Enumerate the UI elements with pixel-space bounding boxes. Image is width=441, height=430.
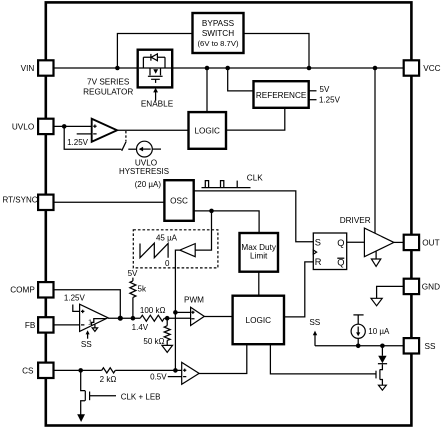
svg-text:100 kΩ: 100 kΩ xyxy=(140,306,166,315)
node CS junction xyxy=(78,368,83,373)
wire OSC ramp output to max duty xyxy=(194,211,259,233)
ground GND symbol xyxy=(371,298,382,306)
svg-text:Q: Q xyxy=(337,238,344,248)
svg-text:(6V to 8.7V): (6V to 8.7V) xyxy=(197,39,238,48)
regulator U1 7V series regulator box xyxy=(138,50,173,88)
wire ramp junction to buffer xyxy=(195,211,211,250)
logic U5 box xyxy=(189,112,227,149)
svg-text:5k: 5k xyxy=(138,285,147,294)
current source I2 10uA charge source xyxy=(353,314,363,316)
svg-text:SS: SS xyxy=(425,342,436,351)
wire VIN to bypass switch xyxy=(117,34,192,69)
node SS arrow into error amp xyxy=(87,334,89,339)
wire VCC rail to driver xyxy=(374,68,376,234)
svg-text:50 kΩ: 50 kΩ xyxy=(143,337,164,346)
node slope comp to PWM junction xyxy=(173,310,178,315)
svg-text:VCC: VCC xyxy=(423,64,440,73)
transistor Q1 pass FET in regulator xyxy=(150,68,161,75)
svg-text:RT/SYNC: RT/SYNC xyxy=(3,196,38,205)
svg-text:2 kΩ: 2 kΩ xyxy=(100,375,117,384)
wire RT/SYNC to OSC xyxy=(54,201,165,203)
svg-text:CLK: CLK xyxy=(247,173,263,182)
wire logic2 to SS discharge FET gate xyxy=(270,344,376,374)
svg-text:SS: SS xyxy=(309,318,320,327)
transistor Q3 SS discharge FET xyxy=(379,369,381,379)
pin OUT xyxy=(404,235,419,250)
node COMP junction xyxy=(118,316,123,321)
svg-text:LOGIC: LOGIC xyxy=(194,126,220,135)
svg-text:7V SERIES: 7V SERIES xyxy=(87,77,130,86)
svg-text:BYPASS: BYPASS xyxy=(202,19,235,28)
svg-text:0.5V: 0.5V xyxy=(150,372,167,381)
wire UVLO comparator output to logic xyxy=(117,129,188,131)
svg-text:45 µA: 45 µA xyxy=(156,233,178,242)
node logic supply junction xyxy=(205,66,210,71)
svg-text:0: 0 xyxy=(165,259,170,268)
wire FB to error amp xyxy=(54,324,80,326)
wire buffer output down to PWM and CS xyxy=(175,250,179,370)
pin COMP xyxy=(38,282,53,297)
wire bypass switch to VCC rail xyxy=(244,34,310,69)
svg-text:5V: 5V xyxy=(128,269,138,278)
svg-text:10 µA: 10 µA xyxy=(368,327,390,336)
svg-text:1.25V: 1.25V xyxy=(64,293,86,302)
transistor Q2 CLK+LEB blanking FET xyxy=(81,370,85,415)
node ramp junction xyxy=(209,209,214,214)
svg-text:OUT: OUT xyxy=(422,239,439,248)
wire VCC rail to logic top xyxy=(206,68,208,112)
wire VIN rail to VCC xyxy=(54,67,404,69)
resistor R1 5k xyxy=(130,281,136,298)
node VIN junction xyxy=(115,66,120,71)
svg-text:5V: 5V xyxy=(320,85,330,94)
wire UVLO to comparator xyxy=(54,125,92,127)
latch U9 SR flip-flop xyxy=(313,233,346,270)
svg-text:GND: GND xyxy=(422,283,440,292)
wire max duty to logic2 xyxy=(258,272,260,296)
svg-text:R: R xyxy=(315,257,322,267)
node reference supply junction xyxy=(225,66,230,71)
wire PWM output to logic2 xyxy=(204,316,232,318)
diode D1 in regulator xyxy=(143,56,165,58)
switch U2 bypass box xyxy=(193,13,244,53)
wire UVLO hysteresis branch xyxy=(64,126,121,149)
wire VCC rail to reference xyxy=(228,68,254,91)
wire logic2 to latch R xyxy=(284,262,313,317)
svg-text:Limit: Limit xyxy=(250,251,268,260)
node SS signal arrow xyxy=(314,335,316,346)
pin RT/SYNC xyxy=(38,195,53,210)
svg-text:CS: CS xyxy=(22,366,34,375)
pin VIN xyxy=(38,60,53,75)
logic U13 bottom logic box xyxy=(233,296,284,345)
svg-text:FB: FB xyxy=(25,321,36,330)
svg-text:ENABLE: ENABLE xyxy=(141,100,174,109)
pin VCC xyxy=(404,60,419,75)
pin CS xyxy=(38,363,53,378)
current source I1 UVLO hysteresis xyxy=(137,141,153,157)
svg-text:DRIVER: DRIVER xyxy=(340,216,371,225)
wire logic to reference bottom xyxy=(226,108,285,130)
wire dashed control line xyxy=(125,131,127,141)
pin SS xyxy=(404,338,419,353)
pin UVLO xyxy=(38,119,53,134)
wire OSC clock output to latch S xyxy=(194,191,314,242)
svg-text:1.25V: 1.25V xyxy=(67,138,89,147)
node UVLO junction xyxy=(62,124,67,129)
wire switch to current source xyxy=(128,148,136,150)
wire diode legs xyxy=(143,57,165,68)
buffer U7 ramp buffer xyxy=(180,244,195,257)
node slope comp CS junction xyxy=(173,368,178,373)
svg-text:HYSTERESIS: HYSTERESIS xyxy=(119,167,169,176)
wire driver output to OUT xyxy=(394,241,404,243)
wire reference 1.25V stub xyxy=(309,99,317,101)
ground 50k ground xyxy=(166,340,168,345)
latch clock edge marker xyxy=(313,250,316,254)
svg-text:Q: Q xyxy=(337,257,344,267)
wire 1.25V stub to UVLO comparator xyxy=(77,133,92,135)
svg-text:VIN: VIN xyxy=(21,64,35,73)
diode D2 SS discharge diode xyxy=(381,346,383,356)
node driver supply junction xyxy=(373,66,378,71)
switch S1 hysteresis switch blade xyxy=(122,141,127,150)
wire error amp output rail xyxy=(108,317,191,319)
wire logic2 to CS comparator output xyxy=(199,344,247,373)
ground CS FET ground arrow xyxy=(77,414,85,422)
reference U3 box xyxy=(254,81,309,108)
wire COMP to error amp output xyxy=(54,290,121,318)
node SS current source junction xyxy=(356,344,361,349)
svg-text:1.4V: 1.4V xyxy=(132,323,149,332)
resistor R4 2 kOhm xyxy=(102,368,116,373)
svg-text:SWITCH: SWITCH xyxy=(202,29,234,38)
svg-text:LOGIC: LOGIC xyxy=(246,316,272,325)
svg-text:S: S xyxy=(315,238,321,248)
pin FB xyxy=(38,317,53,332)
node bypass/VCC junction xyxy=(307,66,312,71)
svg-text:UVLO: UVLO xyxy=(12,122,34,131)
signal CLK waveform xyxy=(202,181,251,188)
op-amp U4 UVLO comparator xyxy=(92,119,117,142)
wire CS to comparator xyxy=(54,369,182,371)
wire latch Q to driver xyxy=(347,241,365,243)
comparator U8 max duty limit box xyxy=(240,233,279,272)
wire SS pin rail xyxy=(315,345,404,347)
svg-text:CLK + LEB: CLK + LEB xyxy=(121,392,161,401)
ramp generator dashed box xyxy=(133,230,218,268)
node SS diode junction xyxy=(380,344,385,349)
svg-text:REFERENCE: REFERENCE xyxy=(256,91,307,100)
svg-text:OSC: OSC xyxy=(170,197,188,206)
signal sawtooth waveform xyxy=(140,243,168,258)
wire current source stub xyxy=(152,148,161,150)
ground SS FET ground xyxy=(379,385,387,390)
node ENABLE arrow into regulator xyxy=(155,92,157,101)
svg-text:REGULATOR: REGULATOR xyxy=(83,88,133,97)
node 5k junction xyxy=(131,316,136,321)
oscillator U6 OSC box xyxy=(164,180,193,221)
svg-text:(20 µA): (20 µA) xyxy=(135,180,162,189)
resistor R3 50 kOhm xyxy=(166,318,168,326)
ground driver ground xyxy=(375,251,377,259)
pin GND xyxy=(404,279,419,294)
wire slope comp to PWM plus input xyxy=(175,311,190,313)
svg-text:1.25V: 1.25V xyxy=(319,95,341,104)
wire reference 5V stub xyxy=(309,90,317,92)
node 50k junction xyxy=(165,316,170,321)
svg-text:SS: SS xyxy=(81,340,92,349)
wire GND pin to ground xyxy=(377,286,404,298)
svg-text:PWM: PWM xyxy=(184,296,204,305)
svg-text:COMP: COMP xyxy=(10,286,35,295)
